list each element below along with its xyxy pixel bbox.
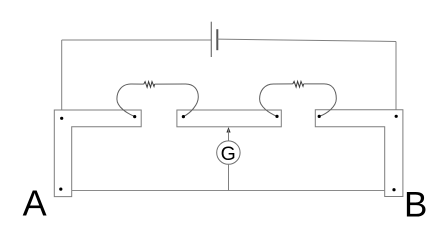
galvanometer upper lead arrowhead: [226, 127, 230, 132]
resistor R2 zigzag: [293, 81, 304, 87]
resistor R2 hook wire left curl: [260, 84, 293, 117]
resistor R1 hook wire right curl: [155, 84, 199, 117]
junction dot R2 right: [318, 115, 321, 118]
copper strip middle: [177, 110, 281, 127]
copper strip right L-bar: [315, 110, 403, 197]
resistor R2 hook wire right curl: [304, 84, 337, 117]
svg-text:A: A: [23, 183, 47, 224]
wire right vertical: [395, 42, 397, 117]
svg-text:B: B: [404, 185, 427, 224]
junction dot right-bar bottom: [392, 188, 395, 191]
battery B1 short plate: [216, 29, 218, 50]
resistor R1 zigzag: [144, 82, 155, 88]
galvanometer G circle: [217, 141, 240, 164]
junction dot R1 right: [182, 115, 185, 118]
svg-text:G: G: [221, 143, 236, 165]
junction dot left-bar top: [60, 117, 63, 120]
galvanometer upper lead wire: [228, 130, 230, 141]
wire bridge bottom: [72, 190, 385, 192]
battery B1 long plate: [210, 22, 212, 57]
galvanometer lower lead wire: [228, 164, 230, 190]
junction dot R1 left: [133, 115, 136, 118]
junction dot right-bar top: [395, 115, 398, 118]
copper strip left L-bar: [54, 110, 141, 197]
junction dot left-bar bottom: [59, 188, 62, 191]
wire top-right sloped: [217, 39, 396, 41]
junction dot R2 left: [275, 115, 278, 118]
resistor R1 hook wire left curl: [117, 84, 144, 117]
wire left vertical: [61, 40, 63, 118]
wire top-left horizontal: [62, 39, 212, 41]
